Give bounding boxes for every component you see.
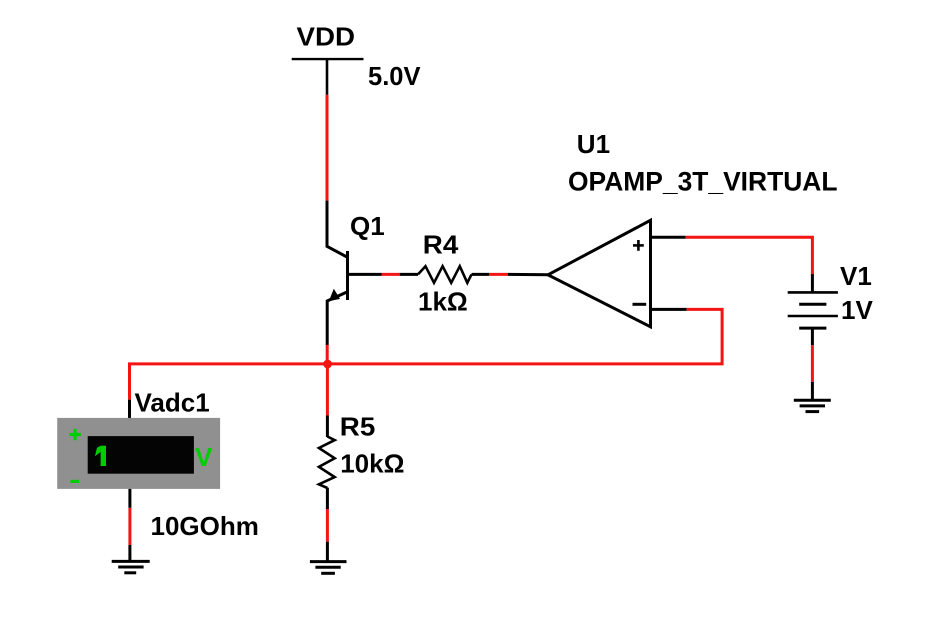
wire black to R4 bbox=[400, 273, 418, 276]
wire meter top black bbox=[128, 400, 131, 419]
power VDD bbox=[292, 59, 364, 95]
resistor R4 bbox=[418, 266, 472, 283]
ground under V1 bbox=[794, 400, 831, 411]
wire VDD to Q1 collector (red) bbox=[326, 95, 329, 202]
ground under meter bbox=[112, 561, 150, 572]
wire R5 bottom black bbox=[326, 488, 329, 509]
svg-text:10kΩ: 10kΩ bbox=[340, 448, 404, 478]
transistor Q1 bbox=[327, 251, 347, 346]
svg-text:Vadc1: Vadc1 bbox=[135, 387, 210, 417]
svg-text:R4: R4 bbox=[423, 229, 459, 259]
svg-text:R5: R5 bbox=[340, 412, 376, 442]
wire black to ground bbox=[326, 542, 329, 562]
battery V1 bbox=[788, 292, 838, 328]
wire R4 to opamp output bbox=[472, 273, 490, 276]
wire red bbox=[128, 508, 131, 545]
wire black to ground bbox=[128, 545, 131, 562]
svg-text:V1: V1 bbox=[840, 261, 872, 291]
svg-text:VDD: VDD bbox=[297, 22, 356, 52]
wire black to battery bbox=[811, 274, 814, 292]
wire battery bottom black bbox=[811, 328, 814, 345]
svg-text:1kΩ: 1kΩ bbox=[418, 287, 468, 317]
svg-text:U1: U1 bbox=[577, 129, 610, 159]
wire opamp + input stub bbox=[651, 236, 686, 239]
ground under R5 bbox=[310, 562, 347, 574]
voltmeter Vadc1 bbox=[57, 418, 220, 489]
wire opamp - input stub bbox=[651, 308, 687, 311]
svg-text:Q1: Q1 bbox=[350, 211, 385, 241]
resistor R5 bbox=[319, 437, 335, 489]
svg-text:1V: 1V bbox=[841, 295, 873, 325]
wire opamp + input to V1 (red) bbox=[686, 237, 813, 275]
wire red bbox=[326, 509, 329, 542]
wire feedback (red) from - input down and across to meter bbox=[130, 309, 723, 399]
node junction dot bbox=[323, 360, 332, 369]
svg-text:V: V bbox=[195, 442, 213, 472]
wire Q1 base to R4 bbox=[348, 273, 382, 276]
wire red segment bbox=[489, 273, 508, 276]
wire meter bottom black bbox=[128, 489, 131, 508]
wire red bbox=[811, 345, 814, 382]
svg-text:5.0V: 5.0V bbox=[368, 61, 421, 91]
op-amp U1 bbox=[548, 220, 651, 326]
wire black to R5 bbox=[326, 415, 329, 437]
wire red segment bbox=[382, 273, 400, 276]
wire collector black bbox=[327, 201, 348, 257]
wire node to R5 (red) bbox=[326, 364, 329, 415]
wire black to ground bbox=[811, 382, 814, 400]
wire black to apex bbox=[508, 273, 550, 276]
wire emitter to node (red) bbox=[326, 345, 329, 364]
svg-text:OPAMP_3T_VIRTUAL: OPAMP_3T_VIRTUAL bbox=[568, 166, 838, 196]
svg-text:10GOhm: 10GOhm bbox=[151, 511, 259, 541]
